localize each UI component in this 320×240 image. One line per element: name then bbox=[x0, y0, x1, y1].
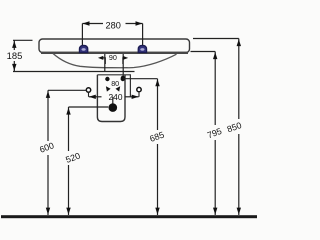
dim 685 line bbox=[157, 79, 159, 130]
dim 185 bottom extension / under-bowl line bbox=[13, 71, 135, 73]
dim 520 extension bbox=[69, 106, 109, 108]
dim 685 junction dot bbox=[121, 76, 125, 80]
dim 600 line bbox=[47, 90, 49, 141]
dim 240 line + arrows bbox=[89, 96, 102, 98]
dim 520 line bbox=[68, 107, 70, 151]
supply circle right bbox=[137, 87, 141, 91]
basin slab outline bbox=[39, 39, 190, 53]
step line to right supply bbox=[97, 75, 130, 97]
bowl curve bbox=[53, 54, 177, 68]
dim 795 extension bbox=[191, 51, 216, 53]
dim 80 right arrow bbox=[116, 86, 121, 91]
basin front lower edge (thick) bbox=[41, 52, 188, 54]
fixing hole right bbox=[121, 77, 125, 81]
U siphon cover bbox=[97, 75, 125, 122]
drain dot bbox=[109, 103, 118, 112]
tap hole dome right bbox=[138, 45, 146, 52]
dim 185 extension top bbox=[13, 39, 33, 41]
svg-text:80: 80 bbox=[111, 79, 119, 88]
fixing hole left bbox=[105, 77, 109, 81]
svg-text:90: 90 bbox=[109, 53, 117, 62]
dim 795 line bbox=[214, 52, 216, 126]
floor line bbox=[1, 215, 257, 218]
dim 600 extension bbox=[48, 89, 87, 91]
svg-text:240: 240 bbox=[109, 92, 123, 102]
svg-text:280: 280 bbox=[106, 20, 121, 30]
tap hole dome left bbox=[79, 45, 87, 52]
dim 80 left arrow bbox=[106, 86, 111, 91]
dim 280 extension lines bbox=[81, 24, 83, 46]
supply circle left bbox=[86, 88, 90, 92]
drain stem bbox=[112, 97, 114, 104]
svg-text:185: 185 bbox=[7, 50, 23, 61]
drain pipe right line bbox=[122, 54, 124, 79]
dim 280 line + arrows bbox=[82, 23, 103, 25]
drain pipe left line bbox=[104, 54, 106, 72]
dim 850 extension bbox=[193, 38, 239, 40]
dim 185 line + arrows bbox=[13, 40, 15, 50]
dim 850 line bbox=[238, 39, 240, 120]
dim 685 extension bbox=[123, 78, 157, 80]
dim 90 left leader+arrow bbox=[102, 58, 105, 64]
dim 90 right leader+arrow bbox=[123, 58, 124, 64]
